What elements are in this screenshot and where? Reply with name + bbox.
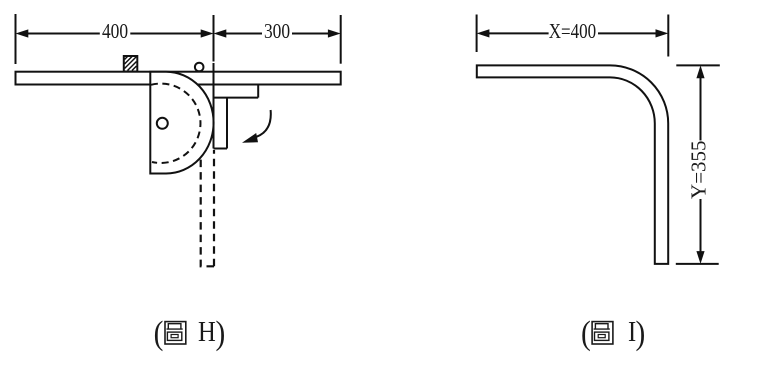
svg-text:(: ( <box>154 314 164 351</box>
svg-text:): ) <box>216 314 226 351</box>
svg-text:400: 400 <box>102 21 128 44</box>
svg-text:300: 300 <box>264 21 290 44</box>
svg-text:H: H <box>198 317 216 348</box>
svg-text:(: ( <box>581 314 591 351</box>
svg-text:X=400: X=400 <box>549 21 596 44</box>
svg-text:): ) <box>636 314 646 351</box>
svg-text:Y=355: Y=355 <box>686 140 710 199</box>
